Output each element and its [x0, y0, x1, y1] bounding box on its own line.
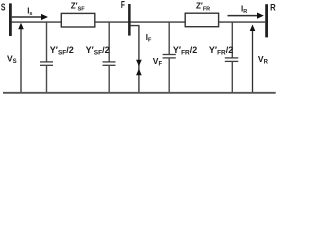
svg-text:R: R — [270, 3, 276, 14]
svg-text:IF: IF — [146, 33, 152, 44]
svg-text:Z′SF: Z′SF — [71, 1, 85, 12]
current Is arrow — [12, 6, 48, 20]
svg-text:VF: VF — [153, 56, 163, 68]
svg-text:S: S — [1, 2, 6, 13]
capacitor Y'SF/2 (F side) — [103, 23, 116, 93]
svg-text:Is: Is — [27, 6, 32, 16]
current IR arrow — [228, 5, 264, 19]
wire: Z'SF to F — [95, 21, 129, 23]
capacitor Y'FR/2 (F side) — [163, 23, 176, 93]
voltage VF arrow head (up) — [136, 69, 142, 76]
svg-text:Y′SF/2: Y′SF/2 — [86, 45, 110, 57]
capacitor Y'SF/2 (S side) — [40, 23, 53, 93]
svg-text:Y′FR/2: Y′FR/2 — [173, 45, 197, 57]
voltage VR arrow — [250, 25, 269, 93]
terminal S bar — [9, 3, 12, 36]
svg-text:F: F — [121, 0, 125, 11]
capacitor Y'FR/2 (R side) — [225, 23, 239, 93]
impedance Z'SF box — [61, 13, 95, 27]
wire: F to Z'FR — [131, 21, 186, 23]
svg-text:Z′FR: Z′FR — [196, 1, 210, 12]
wire: S to Z'SF — [12, 21, 62, 23]
svg-text:VR: VR — [258, 54, 269, 66]
terminal R bar — [265, 4, 268, 37]
svg-text:Y′SF/2: Y′SF/2 — [50, 45, 74, 57]
fault branch wire (L from F bar down to rail) — [131, 26, 139, 93]
impedance Z'FR box — [185, 13, 218, 27]
svg-text:VS: VS — [7, 54, 17, 66]
wire: Z'FR to R — [219, 21, 266, 23]
terminal F bar — [128, 4, 131, 36]
svg-text:Y′FR/2: Y′FR/2 — [209, 45, 233, 57]
ground rail — [3, 92, 276, 94]
voltage Vs arrow — [7, 23, 24, 93]
current IF arrow head (down) — [136, 60, 142, 67]
svg-text:IR: IR — [241, 5, 247, 16]
